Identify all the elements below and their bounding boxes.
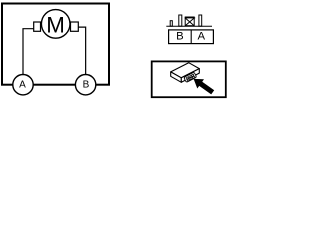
connector tall pin tab right [199,15,202,26]
plug top face [171,63,200,78]
wire from motor right brush to terminal B [78,27,86,75]
svg-text:M: M [46,12,65,37]
terminal A circle [13,75,33,95]
svg-text:A: A [198,31,206,43]
motor M1 circle [41,10,70,39]
connector housing divider [190,30,192,44]
svg-text:B: B [176,31,184,43]
pointer arrow [194,79,215,95]
detail view frame box [152,61,226,97]
wire from motor left brush to terminal A [23,29,34,75]
motor right brush terminal square [71,22,79,31]
plug connector collar [184,72,197,82]
svg-text:B: B [83,80,90,91]
connector crossed box (lock) [185,17,196,26]
connector tall pin tab left [179,15,182,26]
motor assembly enclosure box [2,4,109,85]
connector housing outline [169,30,214,44]
connector short pin tab [170,21,172,27]
terminal B circle [75,75,95,95]
plug pin slots [186,74,195,81]
svg-text:A: A [19,80,26,91]
plug end face [181,69,199,83]
plug front face [171,72,182,82]
3D connector plug icon [171,63,200,83]
connector symbol base line [166,25,212,27]
motor left brush terminal square [34,22,41,31]
